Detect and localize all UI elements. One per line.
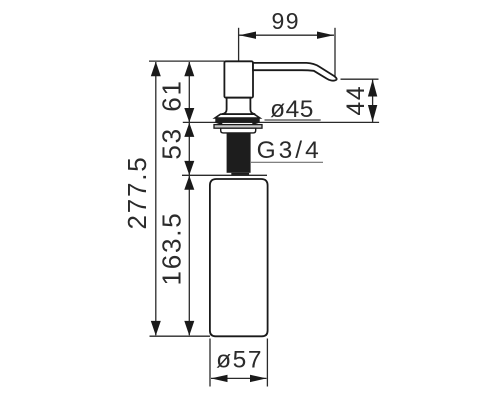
- leader line G3/4: [251, 161, 323, 163]
- dispenser: flange: [215, 114, 260, 118]
- arrow up of 44: [368, 80, 377, 97]
- dimension line 44: [372, 79, 374, 122]
- dispenser: lock nut: [221, 128, 256, 133]
- arrow down at 163.5 bottom: [184, 321, 194, 336]
- dimension line 277.5: [155, 62, 157, 335]
- extension line 57 right: [266, 339, 268, 387]
- extension line at top of head: [149, 60, 225, 62]
- dispenser: collar dark band: [215, 118, 259, 122]
- arrow right of 99: [317, 32, 334, 39]
- arrow right of diameter 57: [250, 375, 267, 382]
- dispenser: pump neck: [222, 98, 255, 115]
- arrow up at 61 top: [184, 62, 194, 77]
- arrow right of diameter 45: [252, 119, 260, 125]
- svg-text:G3/4: G3/4: [257, 137, 322, 164]
- dispenser: pump head: [224, 61, 253, 97]
- dimension line 61/53/163.5: [188, 62, 190, 335]
- dimension line 99: [239, 34, 334, 36]
- arrow left of diameter 57: [211, 375, 228, 382]
- dispenser: spout: [253, 63, 337, 81]
- svg-text:53: 53: [157, 127, 187, 160]
- arrow up at 277.5 top: [151, 62, 161, 77]
- svg-text:ø57: ø57: [216, 346, 263, 373]
- svg-text:61: 61: [157, 79, 187, 112]
- extension line at flange level / diameter 45 dimension line: [183, 121, 379, 123]
- extension line at bottle shoulder level: [182, 174, 267, 176]
- svg-text:44: 44: [342, 85, 370, 116]
- svg-text:163.5: 163.5: [157, 211, 187, 285]
- extension line at bottom of bottle: [150, 335, 211, 337]
- extension line 44 top: [341, 78, 379, 80]
- arrow left of diameter 45: [214, 119, 223, 125]
- dispenser: washer: [214, 125, 262, 129]
- arrow down at 277.5 bottom: [151, 321, 161, 336]
- extension line 57 left: [209, 339, 211, 387]
- svg-text:99: 99: [272, 8, 301, 34]
- arrow down of 44: [368, 105, 377, 122]
- extension line 99 right (spout tip): [334, 28, 336, 77]
- leader underline of diameter 45 (gray): [265, 119, 321, 121]
- svg-text:277.5: 277.5: [122, 155, 152, 229]
- dimension line diameter 57: [211, 377, 267, 379]
- dispenser: threaded rod: [227, 133, 251, 175]
- svg-text:ø45: ø45: [270, 96, 314, 123]
- dispenser: bottle: [210, 179, 268, 336]
- arrowheads: [151, 32, 377, 383]
- arrow pair at flange level: [184, 108, 194, 122]
- arrow pair at shoulder level: [184, 161, 194, 175]
- extension line 99 left (head centre): [238, 28, 240, 61]
- arrow left of 99: [239, 32, 256, 39]
